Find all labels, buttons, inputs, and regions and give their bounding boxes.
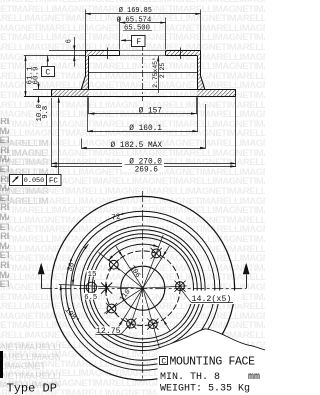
outline: hat top face [85, 50, 119, 52]
datum C leader [47, 56, 49, 66]
black margin bar [0, 351, 3, 378]
hatch: friction ring left [51, 89, 89, 96]
freehand break line [158, 329, 266, 350]
outline: left wall outer [85, 56, 87, 76]
svg-text:Ø 160.1: Ø 160.1 [129, 124, 162, 133]
outline: drum interior step line [89, 72, 197, 74]
bolt holes with cross marks [176, 282, 185, 291]
circle Ø169.85 [84, 230, 201, 347]
hatch: right drum wall [197, 56, 205, 90]
vertical centerline [142, 191, 144, 380]
svg-text:15: 15 [88, 271, 98, 279]
outline: ring right edge [235, 89, 237, 96]
angle dim arc 108deg [61, 285, 165, 371]
svg-text:Ø 270.0: Ø 270.0 [129, 158, 162, 167]
svg-text:65.500: 65.500 [124, 24, 150, 32]
section arrow right [246, 275, 248, 289]
dimension Ø270.0 / 269.6 [51, 163, 236, 165]
pin slot feature ticks [88, 281, 90, 288]
outline: ring bottom face [24, 96, 236, 98]
bolt hole centermark right in section [180, 48, 182, 60]
outline: hat underside face [89, 55, 120, 57]
svg-text:269.6: 269.6 [135, 166, 159, 174]
runout symbol [13, 177, 19, 183]
svg-text:0.050: 0.050 [24, 177, 44, 185]
svg-text:FC: FC [49, 177, 59, 185]
dimension Ø169.85 line [85, 13, 201, 15]
svg-text:MIN. TH. 8: MIN. TH. 8 [160, 372, 220, 383]
darker watermark patches [0, 138, 107, 207]
svg-text:72°: 72° [111, 212, 126, 223]
outline: right wall inner [197, 56, 199, 90]
datum box F [132, 36, 146, 47]
chamfer dimension leader 2.75x45 [158, 56, 160, 93]
outline: hat left edge [85, 51, 87, 56]
outline: ring top and drum opening line [51, 89, 236, 91]
svg-text:Ø 157: Ø 157 [139, 106, 163, 115]
bolt circle diameter line 106 [116, 246, 170, 330]
circle Ø182.5 [81, 226, 206, 351]
svg-text:2.25: 2.25 [159, 63, 166, 79]
svg-text:WEIGHT: 5.35 Kg: WEIGHT: 5.35 Kg [160, 383, 250, 394]
outline: left wall inner [88, 56, 90, 90]
dimension Ø157 [89, 113, 197, 115]
extension line bore left [119, 18, 121, 50]
X position mark on bolt circle left [101, 283, 112, 294]
dimension 10.0/9.8 lower arrow [38, 97, 40, 103]
circle Ø160 [88, 234, 197, 343]
hub bore circle Ø65.5 [121, 266, 165, 310]
pin hole circle [86, 282, 96, 292]
horizontal centerline / section cutting plane [41, 288, 246, 290]
hatch: hat top left of bore [85, 51, 104, 56]
circle Ø230 [66, 211, 220, 365]
hatch: hat top right of bore [166, 51, 201, 56]
svg-text:MOUNTING FACE: MOUNTING FACE [170, 355, 256, 368]
svg-text:6: 6 [66, 39, 74, 43]
extra hole 12.75 [127, 319, 136, 328]
datum F leader [121, 40, 132, 42]
note mask for 14.2 label [187, 291, 242, 305]
outline: bore left wall [119, 51, 121, 56]
svg-text:2.75x45°: 2.75x45° [151, 57, 159, 88]
tolerance frame leader to ring face [58, 98, 60, 175]
note area white mask [158, 329, 266, 395]
dimension 6 line [74, 37, 76, 67]
svg-text:6.5: 6.5 [84, 294, 97, 302]
hatch: left drum wall [81, 56, 89, 90]
svg-text:Ø 182.5 MAX: Ø 182.5 MAX [111, 141, 163, 150]
dimension Ø160.1 [87, 131, 198, 133]
svg-text:C: C [45, 68, 50, 77]
extension line right Ø169.85 [200, 10, 202, 52]
svg-text:Type DP: Type DP [7, 382, 57, 395]
extension: ring top extended left for 10.0 dim [33, 89, 51, 91]
extension: top face extended left for 6 dim [49, 50, 85, 52]
angle dim arc 36deg [73, 244, 89, 285]
runout tolerance frame [10, 175, 62, 186]
outline: ring left edge [51, 89, 53, 96]
outline: right wall outer [200, 56, 202, 76]
extension lines below ring [51, 98, 53, 167]
svg-text:Ø 65.574: Ø 65.574 [117, 16, 152, 25]
svg-text:9.8: 9.8 [42, 106, 50, 119]
text 15 [87, 270, 98, 277]
bolt circle Ø110 dashed [106, 251, 181, 326]
centerline of section [142, 44, 144, 101]
outline: bore far edge lines across gap [120, 50, 166, 52]
svg-text:mm: mm [248, 372, 260, 383]
extension line bore right [165, 18, 167, 50]
hatch: friction ring right [197, 89, 236, 96]
bolt hole centermark left in section [107, 48, 109, 60]
bolt circle diameter line 110 [116, 246, 169, 331]
svg-text:Ø 169.85: Ø 169.85 [119, 6, 152, 15]
outline: bore right wall [165, 51, 167, 56]
dimension 12.75 with leader [96, 326, 122, 333]
dimension 10.0/9.8 upper arrow [38, 82, 40, 89]
circle Ø210 [71, 216, 215, 360]
dimension Ø182.5 MAX [81, 148, 205, 150]
circle Ø148 [92, 238, 193, 339]
datum box C [42, 67, 55, 77]
text 6.5 [84, 293, 99, 300]
section arrow left [41, 275, 43, 289]
svg-text:C: C [161, 357, 166, 366]
note: datum C box [160, 357, 168, 365]
radial lines through bolt holes [143, 286, 187, 288]
extension line left Ø169.85 [85, 10, 87, 52]
dimension Ø65.574/65.500 bore [120, 22, 166, 24]
svg-text:60.9: 60.9 [33, 66, 41, 84]
outer circle Ø270 [51, 196, 235, 380]
svg-text:F: F [136, 38, 141, 47]
angle dim arc 72deg [109, 244, 159, 260]
extension: mounting face extended left for 61.1 dim [24, 55, 85, 57]
dimension 61.1/60.9 line [25, 56, 27, 97]
outline: hat right edge [200, 51, 202, 56]
